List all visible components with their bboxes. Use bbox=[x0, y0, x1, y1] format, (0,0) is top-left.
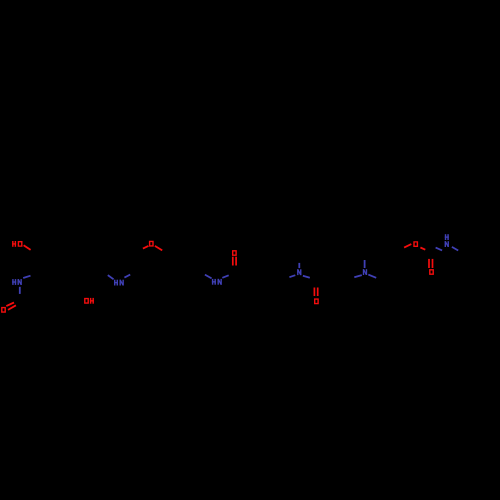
bond stub O-CH3 (red half) bbox=[143, 246, 149, 249]
double bond stubs C=O vertical (red halves) bbox=[313, 288, 315, 297]
label HN (anilide nitrogen) bbox=[212, 279, 222, 285]
label HN (secondary amine) bbox=[114, 280, 124, 286]
bond stub N-CH2 down-left (blue half) bbox=[289, 275, 295, 277]
label HO (phenol hydroxyl) bbox=[12, 241, 22, 247]
bond stub N-ring (blue half) bbox=[23, 276, 30, 278]
label O (anilide carbonyl oxygen) bbox=[232, 250, 237, 256]
bond stub O-ring2 (red half) bbox=[155, 246, 162, 251]
bond stub N-ring down-left (blue half) bbox=[354, 275, 362, 277]
label N (carbamate nitrogen) bbox=[445, 241, 449, 247]
bond stub ring3-N into H (blue half) bbox=[205, 275, 212, 279]
double bond stubs C=O vertical (red halves) bbox=[232, 257, 234, 266]
bond stub N-C(=O) (blue half) bbox=[222, 275, 228, 278]
bond stub N-CH2 up (blue half) bbox=[364, 260, 366, 268]
bond stub O-ring (red half) bbox=[24, 245, 31, 250]
bond stub N-ring down-right (blue half) bbox=[368, 275, 376, 278]
bond stub C-N into H (blue half) bbox=[108, 275, 114, 279]
double bond stubs C=O vertical (red halves) bbox=[428, 259, 430, 268]
bond stub N-C up-right (blue half) bbox=[124, 275, 130, 278]
bond stub C(=O)-N down-left (blue half) bbox=[436, 248, 443, 251]
label N (piperidine nitrogen) bbox=[363, 269, 367, 275]
bond stub N-C down-right (blue half) bbox=[452, 247, 458, 251]
label HN (formamide nitrogen) bbox=[12, 279, 22, 285]
bond stub O-C(=O) down-right (red half) bbox=[420, 248, 425, 250]
label O (methoxy oxygen) bbox=[149, 241, 154, 247]
label N (N-methyl amide nitrogen) bbox=[297, 269, 301, 275]
bond stub N-C(=O) down-right (blue half) bbox=[303, 276, 310, 278]
label O (amide carbonyl oxygen) bbox=[314, 298, 319, 304]
label O (formyl oxygen) bbox=[1, 307, 6, 313]
bond stub O-CH down-left (red half) bbox=[404, 244, 411, 248]
double bond stubs C=O formyl (red halves) bbox=[6, 303, 14, 307]
bond stub N-C formyl (blue half) bbox=[19, 287, 21, 294]
label OH (benzylic hydroxyl) bbox=[84, 298, 94, 304]
label H (carbamate N-H hydrogen, stacked above N) bbox=[445, 234, 449, 240]
label O (carbamate carbonyl oxygen) bbox=[429, 269, 434, 275]
label O (ester oxygen) bbox=[413, 241, 418, 247]
bond stub N-CH3 up (blue half) bbox=[298, 263, 300, 268]
